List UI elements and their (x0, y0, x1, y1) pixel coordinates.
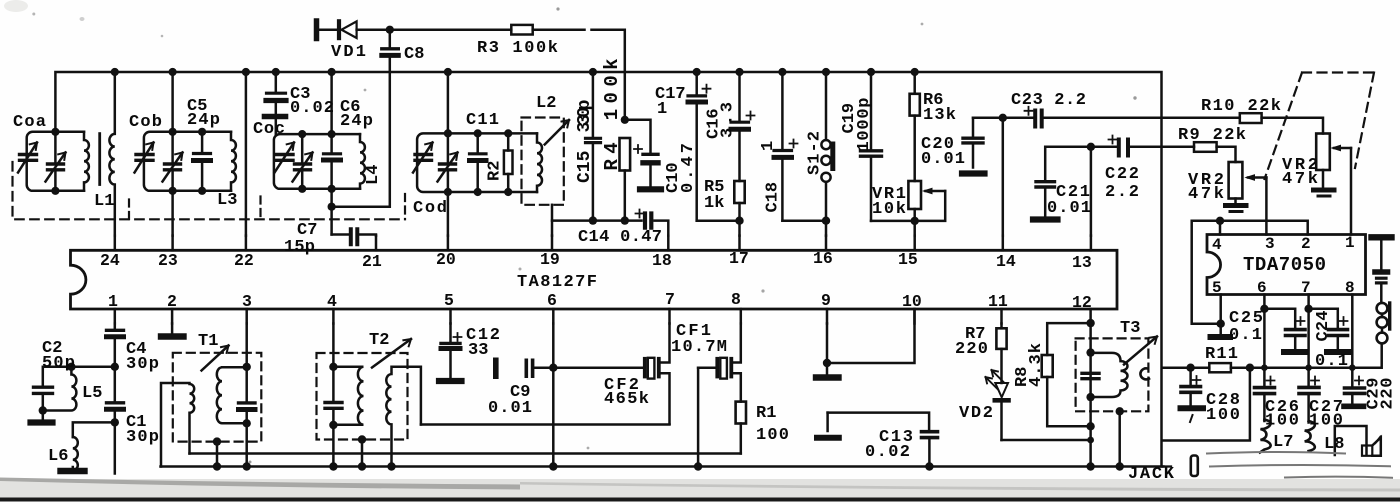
T2NET (317, 324, 421, 471)
svg-text:1000p: 1000p (855, 98, 874, 152)
ground C13 wire (826, 413, 829, 431)
resistor R6 (910, 94, 920, 116)
resistor R7 (1000, 324, 1003, 329)
node bus T2 shield (358, 462, 366, 470)
node C6 top (328, 130, 336, 138)
diode VD1 (314, 21, 320, 39)
node R11 right (1246, 364, 1254, 372)
node T3 shield (1116, 407, 1124, 415)
capacitor C7 (332, 233, 349, 236)
node bus R6 (911, 68, 919, 76)
wire C6 to C7 node (330, 189, 333, 235)
resistor R9 (1194, 142, 1217, 152)
wire pin1 stub (114, 309, 117, 324)
grey output leads (1207, 452, 1345, 454)
inductor L2 (537, 133, 542, 192)
svg-text:465k: 465k (604, 390, 649, 409)
node R2 bottom (504, 188, 512, 196)
svg-text:1: 1 (1345, 234, 1355, 252)
capacitor C12 (449, 324, 452, 379)
capacitor T2 cap (332, 324, 335, 467)
svg-text:20: 20 (436, 250, 456, 269)
svg-text:6: 6 (547, 291, 557, 310)
node bus pin23 (169, 68, 177, 76)
node C11 bottom (474, 188, 482, 196)
node Coa bottom (51, 187, 59, 195)
svg-text:T1: T1 (198, 332, 218, 351)
node pin16 junction (822, 217, 830, 225)
svg-text:18: 18 (652, 251, 672, 270)
wire L8 loop (1335, 426, 1367, 455)
capacitor C21 (1045, 147, 1091, 216)
tank box Cod (417, 133, 537, 192)
svg-text:VD2: VD2 (959, 404, 993, 423)
potentiometer VR2 right (1316, 134, 1330, 171)
capacitor Cob section1 (135, 143, 154, 173)
capacitor C27 (1299, 386, 1319, 390)
node bus C16 (735, 68, 743, 76)
ICS (71, 235, 1366, 310)
svg-text:C8: C8 (404, 45, 424, 64)
capacitor C24 (1307, 295, 1310, 388)
capacitor C22 (1091, 146, 1194, 149)
node Coc mid bottom (298, 185, 306, 193)
node pin1 junction (111, 363, 119, 371)
svg-text:3.3: 3.3 (719, 102, 738, 138)
wire pin9 pin10 (827, 309, 915, 363)
capacitor C19 (870, 72, 873, 221)
node R8 top (1086, 319, 1094, 327)
inductor T1 secondary (217, 367, 247, 423)
op-amp U1 TA8127F body (71, 250, 1118, 309)
svg-text:R1: R1 (756, 404, 776, 423)
pin numbers TDA7050 (1212, 234, 1355, 297)
capacitor C2 (34, 386, 53, 389)
wire T2 shield to bus (361, 440, 364, 467)
svg-text:4: 4 (327, 292, 337, 311)
svg-text:15: 15 (898, 250, 918, 269)
svg-text:7: 7 (665, 290, 675, 309)
svg-text:1: 1 (759, 141, 778, 151)
node bus C19 (867, 68, 875, 76)
capacitor C16 (738, 72, 741, 181)
node Cob top (169, 128, 177, 136)
wire Coa to bus (54, 132, 57, 191)
pin numbers TA8127F bottom (108, 290, 1092, 312)
svg-text:6: 6 (1257, 279, 1267, 297)
svg-text:Coc: Coc (253, 120, 285, 139)
transformer T3 (1076, 338, 1149, 411)
capacitor Coc section1 (275, 143, 295, 173)
svg-text:3: 3 (242, 292, 252, 311)
AFCNET (552, 68, 668, 236)
wire pin21 stub (375, 236, 378, 251)
capacitor C26 (1255, 386, 1275, 390)
svg-text:8: 8 (1345, 279, 1355, 297)
ground pin9 (826, 363, 829, 374)
capacitor T3 cap (1082, 372, 1099, 375)
svg-text:1: 1 (108, 292, 118, 311)
wire R3 to R4 (533, 30, 625, 120)
svg-text:2.2: 2.2 (1105, 183, 1139, 202)
capacitor C1 (114, 367, 117, 423)
capacitor C25 (1263, 295, 1266, 388)
svg-text:L2: L2 (536, 94, 556, 113)
potentiometer VR2 left (1229, 162, 1243, 199)
svg-text:TA8127F: TA8127F (517, 273, 597, 292)
capacitor C9 (493, 360, 499, 376)
inductor T3 coil (1091, 353, 1128, 397)
svg-text:Coa: Coa (13, 113, 46, 132)
node R2 top (504, 129, 512, 137)
capacitor C23 (1003, 117, 1162, 120)
node C13 bus (925, 462, 933, 470)
wire CF2 ground run (421, 423, 670, 426)
node pin9 (823, 359, 831, 367)
capacitor Coa section2 (46, 153, 66, 182)
svg-text:11: 11 (988, 292, 1008, 311)
capacitor C10 (643, 153, 658, 156)
wire pin7 stub (668, 309, 671, 324)
resistor R11 (1209, 363, 1231, 372)
wire C9 to CF2 (553, 366, 643, 369)
capacitor C4 (114, 324, 117, 367)
node C1 bottom (111, 418, 119, 426)
svg-text:C15: C15 (575, 151, 595, 183)
svg-text:12: 12 (1072, 293, 1092, 312)
node bus pin3 (243, 462, 251, 470)
wire C18 to pin16 (782, 219, 826, 222)
node Coc mid top (298, 130, 306, 138)
ground C2 (42, 411, 45, 419)
wire pin1 tail (114, 422, 117, 473)
wire C7 to pin21 (359, 235, 376, 236)
dashed gang enclosure (13, 162, 406, 219)
svg-text:1k: 1k (704, 194, 724, 213)
node bus T2 sec (387, 462, 395, 470)
pin numbers TA8127F top (100, 249, 1092, 272)
speaker (1362, 446, 1372, 456)
resistor R3 (511, 25, 532, 35)
capacitor Coa section1 (18, 143, 37, 173)
node TDA pin4 (1216, 217, 1224, 225)
svg-text:2: 2 (1301, 235, 1311, 253)
node Cob bottom (169, 187, 177, 195)
battery terminal bar (1372, 234, 1392, 240)
wire R4 node to C10 (625, 120, 651, 154)
svg-text:10.7M: 10.7M (671, 338, 727, 357)
inductor T2 secondary (386, 367, 421, 467)
wire pin18 stub (667, 236, 670, 251)
resistor R5 (734, 181, 744, 203)
svg-text:220: 220 (1379, 378, 1398, 410)
node L5 top (67, 363, 75, 371)
wire TDA pins 2-4-5 (1192, 221, 1308, 324)
RIGHTTOP (962, 73, 1374, 236)
svg-text:24: 24 (100, 251, 120, 270)
svg-text:23: 23 (158, 251, 178, 270)
svg-text:L8: L8 (1324, 435, 1344, 454)
svg-text:47k: 47k (1188, 185, 1224, 204)
wire pin5 stub (449, 309, 452, 324)
capacitor Cod section1 (413, 143, 433, 173)
svg-text:0.01: 0.01 (488, 399, 532, 418)
capacitor C13 (828, 413, 930, 430)
node bus pin6 (549, 462, 557, 470)
inductor L7 (1260, 420, 1271, 453)
ground TDA pin5 (1219, 324, 1222, 334)
inductor T2 primary (333, 367, 363, 425)
wire VR2l wiper to TDA pin3 (1265, 178, 1268, 235)
svg-text:2: 2 (167, 292, 177, 311)
resistor R1 (736, 402, 746, 424)
wire TDA pin8 (1351, 295, 1354, 386)
capacitor T1 cap (245, 324, 248, 467)
capacitor C6 (330, 72, 333, 189)
capacitor C18 (781, 72, 784, 221)
node C8 top (386, 26, 394, 34)
filter CF2 (643, 359, 647, 377)
wire T1 shield to bus (216, 442, 219, 467)
WIRES-MAIN (55, 72, 1163, 467)
svg-text:1: 1 (657, 100, 667, 119)
svg-text:0.01: 0.01 (921, 150, 965, 169)
node R4 bottom (621, 216, 629, 224)
diode VD2 (995, 383, 1008, 397)
svg-text:Cod: Cod (413, 199, 447, 218)
wire AFC (552, 221, 668, 236)
svg-text:330p: 330p (575, 100, 595, 133)
svg-text:C18: C18 (764, 182, 783, 213)
inductor L1 secondary / pin24 wire (109, 72, 114, 236)
wire pin20 stub (447, 236, 450, 251)
capacitor Cob section2 (163, 153, 183, 182)
TOPNET (317, 21, 662, 221)
svg-text:C11: C11 (466, 111, 499, 130)
node T2 bottom (329, 421, 337, 429)
tank box Coc (274, 134, 360, 189)
resistor R10 (1162, 117, 1240, 120)
T1NET (161, 324, 261, 471)
resistor R4 (620, 138, 631, 171)
MIDNET (688, 68, 945, 471)
dashed gang parallelogram (1265, 73, 1375, 180)
node Coa top (51, 128, 59, 136)
svg-text:7: 7 (1301, 279, 1311, 297)
svg-text:0.02: 0.02 (290, 99, 334, 118)
node R8 bottom (1086, 422, 1094, 430)
node bus C15 (589, 68, 597, 76)
wire pin9 stub (826, 309, 829, 324)
wire pin3 stub (245, 309, 248, 324)
wire top bus (55, 72, 1161, 467)
svg-text:JACK: JACK (1128, 465, 1175, 484)
svg-text:4: 4 (1212, 236, 1222, 254)
node T3 top (1086, 348, 1094, 356)
wire pin8 stub (740, 309, 743, 324)
svg-text:47k: 47k (1282, 170, 1318, 189)
wire CF1 in to bus (697, 368, 700, 467)
svg-text:24p: 24p (340, 112, 373, 131)
wire signal bus A (190, 452, 741, 455)
resistor R8 (1047, 323, 1090, 355)
svg-text:14: 14 (996, 252, 1016, 271)
svg-text:16: 16 (813, 249, 833, 268)
node T2 top (329, 363, 337, 371)
wire pin23 through Cob (171, 72, 174, 236)
svg-text:4.3k: 4.3k (1027, 343, 1046, 387)
svg-text:R2: R2 (486, 161, 505, 181)
node T1 bottom (243, 419, 251, 427)
svg-text:100: 100 (1206, 406, 1240, 425)
svg-text:0.1: 0.1 (1315, 352, 1348, 371)
wire VR2r wiper to TDA pin1 (1350, 148, 1353, 235)
wire T3 shield to bus (1118, 411, 1121, 466)
node bus S1-2 (822, 68, 830, 76)
wire pin4 stub (332, 309, 335, 324)
wire pin15 stub (913, 236, 916, 251)
svg-text:13: 13 (1072, 253, 1092, 272)
node bus C17 (693, 68, 701, 76)
inductor L6 (73, 437, 78, 470)
tank box Coa (27, 132, 84, 191)
wire pin13 stub (1090, 236, 1093, 251)
wire L1 core (98, 134, 101, 185)
inductor L1 primary (84, 132, 89, 191)
wire R11 rail (1162, 345, 1381, 368)
svg-text:C23 2.2: C23 2.2 (1011, 91, 1086, 110)
svg-text:0.01: 0.01 (1047, 199, 1091, 218)
switch S1-2 (825, 72, 828, 140)
node R4 top (621, 116, 629, 124)
svg-text:R11: R11 (1205, 345, 1238, 364)
svg-text:R4 100k: R4 100k (601, 59, 623, 171)
wire VD1 to R3 (390, 28, 512, 31)
svg-text:17: 17 (729, 249, 749, 268)
svg-text:TDA7050: TDA7050 (1243, 254, 1326, 276)
node bus pin20 (444, 68, 452, 76)
PIN11-12 (986, 319, 1158, 471)
node bus C18 (778, 68, 786, 76)
svg-text:C14 0.47: C14 0.47 (578, 228, 662, 247)
svg-text:C22: C22 (1105, 165, 1139, 184)
wire C20 to pin14 (973, 118, 1003, 236)
ground C12 (439, 378, 462, 384)
wire pin11 stub (1000, 309, 1003, 324)
node bus T1 shield (213, 462, 221, 470)
node C15 bottom (589, 216, 597, 224)
capacitor C15 (592, 72, 595, 221)
inductor L8 (1305, 421, 1315, 451)
wire pin19 stub (551, 236, 554, 251)
node C2 bottom (39, 406, 47, 414)
wire pin1 node to C2 (43, 367, 115, 387)
jack contacts (1377, 303, 1388, 314)
dashed box T1 (173, 353, 261, 442)
svg-text:100: 100 (1265, 412, 1299, 431)
dashed box L2 (522, 118, 564, 205)
wire C1 to L6 (73, 422, 115, 437)
wire pin17 stub (738, 236, 741, 251)
svg-text:5: 5 (444, 291, 454, 310)
node bus C3 (272, 68, 280, 76)
svg-text:L1: L1 (94, 192, 114, 211)
node T2 shield (358, 435, 366, 443)
node bus pin22 (242, 68, 250, 76)
inductor L5 (43, 367, 77, 411)
capacitor C17 (695, 72, 698, 221)
capacitor C14 (645, 214, 651, 228)
trimmer arrow T1 (202, 346, 229, 371)
capacitor Coc section2 (293, 153, 313, 182)
node bus T2 pin4 (329, 462, 337, 470)
node TDA pin5 (1217, 320, 1225, 328)
node bus CF1 (694, 462, 702, 470)
TANKS (13, 68, 570, 244)
svg-text:R10 22k: R10 22k (1201, 97, 1281, 116)
wire pin13 vertical (1090, 147, 1093, 236)
wire pin2 stub (171, 309, 174, 324)
wire pin12 vertical (1089, 324, 1092, 467)
node C6 bottom (328, 185, 336, 193)
node T3 bottom (1086, 393, 1094, 401)
svg-text:VD1: VD1 (331, 43, 366, 62)
potentiometer VR1 (908, 181, 921, 209)
node bus pin24 (111, 68, 119, 76)
wire R11 loop (1162, 368, 1250, 441)
svg-text:0.02: 0.02 (865, 443, 910, 462)
svg-text:10k: 10k (872, 200, 906, 219)
wire pin10 stub (913, 309, 916, 324)
svg-text:50p: 50p (42, 354, 75, 373)
svg-text:24p: 24p (187, 111, 220, 130)
IFNET (421, 324, 746, 471)
node pin13 (1087, 143, 1095, 151)
wire pin6 stub (552, 309, 555, 324)
wire pin6 vertical (552, 324, 555, 467)
op-amp U2 TDA7050 body (1207, 235, 1366, 295)
svg-text:L5: L5 (82, 384, 102, 403)
wire pin20 through Cod (447, 72, 450, 236)
wire pin14 stub (1002, 236, 1005, 251)
wire VD2 to pin12 (1002, 439, 1091, 442)
capacitor C8 (332, 30, 390, 207)
node C5 bottom (198, 187, 206, 195)
inductor L3 (231, 132, 236, 191)
svg-text:L6: L6 (48, 447, 68, 466)
svg-text:5: 5 (1212, 279, 1222, 297)
node VR1 bottom (911, 217, 919, 225)
capacitor C20 (972, 118, 975, 168)
node pin6 C9 (549, 364, 557, 372)
svg-text:8: 8 (731, 290, 741, 309)
inductor T1 primary (161, 383, 194, 467)
svg-text:10: 10 (902, 292, 922, 311)
trimmer arrow T3 (1124, 337, 1157, 365)
wire C17 to pin17 (697, 219, 740, 222)
node bus pin12 (1086, 462, 1094, 470)
ground L6 (61, 468, 85, 474)
filter CF1 (698, 366, 715, 369)
wire bottom bus (161, 465, 1164, 468)
svg-text:R9 22k: R9 22k (1178, 126, 1246, 145)
wire C19 to VR1 (871, 191, 945, 221)
svg-text:T2: T2 (369, 331, 389, 350)
wire pin16 stub (825, 236, 828, 251)
node C8 junction (328, 203, 336, 211)
svg-text:L4: L4 (364, 165, 383, 185)
tank box Cob (144, 132, 231, 191)
